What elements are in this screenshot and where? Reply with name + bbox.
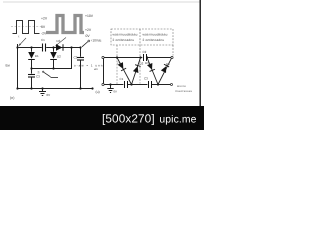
node T1 [116, 56, 118, 58]
svg-text:0V: 0V [114, 90, 118, 94]
diode D3b on diagonal T2-B2 [147, 58, 158, 85]
svg-text:D4: D4 [166, 62, 170, 66]
ground (a) [41, 87, 43, 89]
diode D4b on diagonal B2-T3 [158, 58, 172, 84]
svg-text:D3: D3 [57, 39, 61, 43]
node B [52, 46, 54, 48]
svg-text:0V: 0V [47, 93, 51, 97]
switch S blade [43, 71, 44, 72]
svg-text:0V: 0V [41, 25, 46, 29]
diode D2b on diagonal B1-T2cap [132, 58, 141, 85]
wire top rail (b) [104, 57, 171, 59]
ground node (b) [109, 83, 111, 85]
svg-text:+2V: +2V [41, 16, 48, 20]
node rail end [91, 87, 93, 89]
svg-text:Ein: Ein [6, 64, 11, 68]
node C2 foot [79, 87, 81, 89]
svg-text:C3: C3 [36, 75, 40, 79]
ground (b) [110, 85, 112, 89]
node B1 [130, 83, 132, 85]
dashed divider [139, 29, 141, 45]
node D1 foot [30, 67, 32, 69]
svg-text:ein: ein [94, 67, 98, 71]
terminal input top (b) [102, 56, 104, 58]
wire middle rail [32, 48, 72, 69]
svg-text:0V: 0V [86, 34, 91, 38]
svg-text:+2V: +2V [85, 28, 92, 32]
dashed leader left [116, 45, 118, 84]
node T2 [146, 56, 148, 58]
waveform W1 square wave trace [13, 21, 40, 34]
svg-text:wasrinuudataau: wasrinuudataau [143, 32, 168, 36]
node input top [16, 46, 18, 48]
capacitor C2b (series top) [143, 54, 145, 61]
node output [79, 46, 81, 48]
diode D1b on diagonal T1-B1 [117, 58, 132, 85]
node B2 [157, 83, 159, 85]
svg-text:+10Vdc: +10Vdc [91, 39, 102, 43]
capacitor C1 (series) [42, 44, 44, 52]
svg-text:(u): (u) [96, 90, 100, 94]
input source line Ein [17, 44, 19, 89]
dashed leader right [172, 45, 174, 56]
node cap left [139, 56, 141, 58]
waveform W1 zero axis (dashed) [11, 26, 42, 28]
wire bottom rail (a) [18, 88, 93, 90]
photo right border [199, 0, 201, 108]
watermark bar [0, 106, 204, 130]
switch to +10Vdc terminal [82, 42, 88, 47]
terminal output bottom (b) [171, 84, 173, 86]
svg-text:wsviu: wsviu [177, 84, 186, 88]
capacitor C1b (series bottom left) [124, 81, 126, 88]
svg-text:(n): (n) [10, 96, 14, 100]
dashed section box [111, 29, 173, 45]
svg-text:D1: D1 [35, 54, 39, 58]
diode D1 (shunt) [31, 48, 33, 52]
terminal output top (b) [171, 56, 173, 58]
svg-text:[500x270]: [500x270] [102, 112, 155, 126]
capacitor C2 (output, vertical) [80, 48, 82, 57]
photo top border (faint) [3, 1, 200, 3]
svg-text:C3: C3 [144, 77, 148, 81]
diode D3 (series) [56, 44, 62, 51]
svg-text:2 ontbnoadcu: 2 ontbnoadcu [113, 38, 135, 42]
wire top rail (a) [18, 47, 81, 49]
svg-text:C1: C1 [41, 38, 45, 42]
wire bottom rail (b) [104, 84, 170, 86]
capacitor C3b (series bottom right) [148, 81, 150, 88]
node C (riser junction) [70, 46, 72, 48]
svg-text:C1: C1 [120, 77, 124, 81]
svg-text:wasrinuudataau: wasrinuudataau [113, 32, 138, 36]
svg-text:D1: D1 [118, 62, 122, 66]
svg-text:2 ontbnoadcu: 2 ontbnoadcu [143, 38, 165, 42]
node D2 foot [52, 67, 54, 69]
capacitor C3 (shunt, vertical) [31, 69, 33, 74]
svg-text:D3: D3 [145, 61, 149, 65]
svg-text:C2: C2 [74, 56, 78, 60]
waveform W2 thick grey pulse trace [46, 16, 84, 33]
svg-text:+10V: +10V [85, 14, 94, 18]
terminal input bottom (b) [102, 83, 104, 85]
diode D2 (shunt) [53, 48, 55, 52]
svg-text:inaoiwuau: inaoiwuau [175, 89, 193, 93]
svg-text:C2: C2 [143, 50, 147, 54]
input source line (b) [103, 58, 105, 83]
node input bottom [16, 87, 18, 89]
leader arrow from W1 to input node [19, 38, 26, 45]
svg-text:S: S [38, 71, 40, 75]
node A [30, 46, 32, 48]
svg-text:o-aw = 1 unn: o-aw = 1 unn [74, 64, 103, 68]
leader arrow from W2 to diode node [56, 38, 66, 46]
svg-text:D2: D2 [140, 62, 144, 66]
dashed leader middle [139, 45, 141, 84]
svg-text:upic.me: upic.me [159, 115, 196, 126]
node C3 foot [30, 87, 32, 89]
svg-text:D2: D2 [57, 55, 61, 59]
